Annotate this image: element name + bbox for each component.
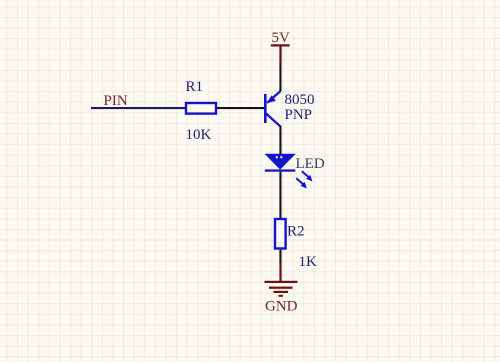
ground bar 1 — [265, 281, 298, 283]
collector — [266, 114, 281, 127]
ground bar 3 — [274, 291, 289, 293]
diode LED — [265, 154, 313, 189]
svg-text:8050: 8050 — [285, 92, 315, 108]
svg-text:GND: GND — [265, 299, 298, 315]
ground bar 2 — [269, 287, 293, 289]
power 5V stub — [279, 47, 281, 63]
svg-text:10K: 10K — [186, 127, 212, 143]
resistor R1 — [186, 103, 216, 114]
cathode bar — [265, 169, 296, 171]
base bar — [264, 94, 267, 123]
grid dots on triangle — [276, 156, 278, 158]
svg-text:PNP: PNP — [285, 107, 313, 123]
svg-text:1K: 1K — [299, 254, 318, 270]
wire collector to LED — [279, 126, 281, 155]
svg-text:R1: R1 — [186, 79, 204, 95]
ground — [265, 263, 298, 297]
emitter arrowhead — [267, 95, 276, 103]
svg-text:PIN: PIN — [104, 93, 128, 109]
transistor Q1 8050 — [264, 91, 281, 127]
wire PIN net — [91, 107, 185, 109]
wire R2 to ground — [279, 250, 281, 263]
resistor R2 — [275, 219, 286, 249]
wire LED to R2 — [279, 172, 281, 219]
svg-text:R2: R2 — [287, 224, 305, 240]
emission arrow 1 — [302, 171, 309, 177]
svg-text:5V: 5V — [272, 30, 291, 46]
power 5V bar — [271, 44, 290, 46]
svg-text:LED: LED — [296, 156, 325, 172]
ground bar 4 — [279, 295, 284, 297]
wire R1 to base — [217, 107, 265, 109]
emission arrow 2 — [296, 178, 303, 184]
anode triangle — [265, 154, 296, 170]
emitter — [267, 91, 281, 103]
ground stub — [279, 263, 281, 281]
wire 5V to transistor emitter — [279, 63, 281, 92]
